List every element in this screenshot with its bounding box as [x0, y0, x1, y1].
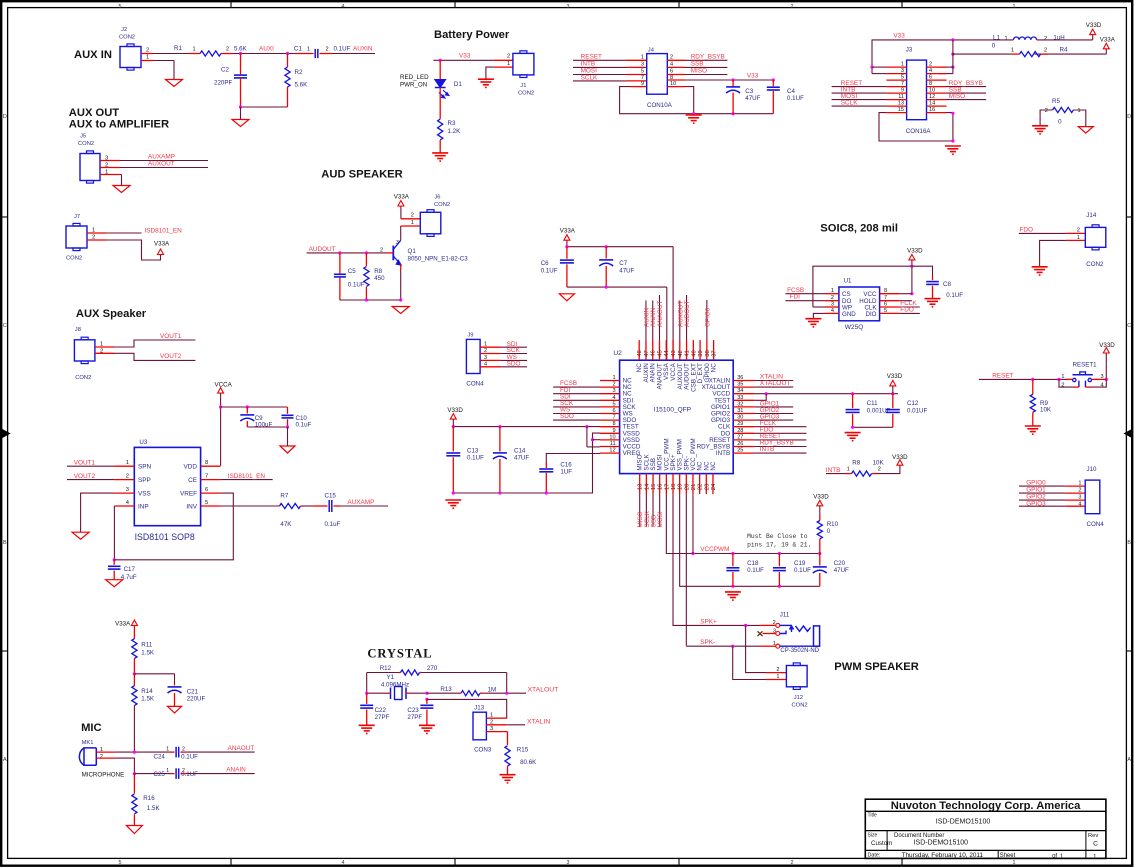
svg-text:R3: R3	[448, 120, 456, 127]
svg-text:VOUT1: VOUT1	[160, 333, 182, 340]
svg-text:2: 2	[776, 667, 779, 673]
svg-text:MIC: MIC	[81, 722, 102, 734]
svg-text:42: 42	[678, 350, 684, 356]
net label VOUT2 at U3	[74, 473, 96, 480]
frame column labels bottom	[119, 860, 1016, 866]
junction R11 R14 C21	[133, 672, 136, 675]
net label RESET at RESET1	[992, 372, 1013, 379]
earth ground below R3	[432, 153, 448, 161]
section header MIC	[81, 722, 102, 734]
C1 leads	[295, 53, 332, 55]
wire MK1 pin2 to ANAIN row	[116, 758, 136, 775]
svg-text:2: 2	[1045, 108, 1048, 114]
svg-text:SOIC8, 208 mil: SOIC8, 208 mil	[820, 223, 898, 235]
svg-text:0: 0	[1058, 119, 1062, 126]
section header SOIC8 208 mil	[820, 223, 898, 235]
IC U2 body	[620, 360, 734, 473]
svg-text:CON3: CON3	[474, 747, 492, 754]
svg-text:16: 16	[929, 107, 935, 113]
signal ground right of R5	[1078, 127, 1093, 134]
wires U2 left nets FCSB FDI SDI SCK WS SDO	[553, 387, 600, 420]
svg-text:CON2: CON2	[1086, 261, 1104, 268]
J4 right pin numbers	[670, 55, 676, 87]
U2 bottom pin numbers	[638, 483, 717, 490]
svg-text:SCLK: SCLK	[581, 74, 598, 81]
svg-text:ANAOUT: ANAOUT	[657, 301, 664, 327]
svg-text:R4: R4	[1060, 47, 1068, 54]
net label SPK+	[700, 619, 717, 626]
svg-text:V33: V33	[893, 33, 905, 40]
R3 bottom lead	[439, 140, 441, 153]
connector J14	[1085, 225, 1106, 250]
U2 right pin names	[697, 378, 731, 458]
wires J9 nets	[501, 347, 527, 367]
C22 labels	[375, 707, 390, 721]
svg-text:CON2: CON2	[119, 35, 135, 41]
wire net V33 to C3 C4	[685, 79, 773, 81]
wire U1 top loop	[813, 266, 933, 307]
earth ground below C18	[725, 592, 741, 600]
earth ground below R15	[500, 775, 516, 783]
R15 bottom lead	[507, 766, 509, 775]
svg-text:47K: 47K	[280, 521, 292, 528]
svg-text:AUDOUT: AUDOUT	[684, 300, 691, 327]
svg-text:AUDOUT: AUDOUT	[309, 246, 336, 253]
wire Y1 to R13	[427, 692, 458, 694]
svg-text:C25: C25	[154, 771, 166, 778]
C2 leads	[240, 54, 242, 108]
wire V33A rail top	[565, 240, 673, 248]
net label VOUT1 at U3	[74, 459, 96, 466]
svg-text:12: 12	[929, 94, 935, 100]
svg-text:CON4: CON4	[466, 381, 484, 388]
svg-text:Y1: Y1	[387, 674, 395, 681]
wire net VOUT2 to U3	[67, 479, 114, 481]
svg-text:AUX IN: AUX IN	[74, 49, 112, 61]
power symbol V33A at MIC	[115, 620, 137, 628]
net label AUXIN	[353, 46, 373, 53]
svg-text:0.1UF: 0.1UF	[747, 567, 764, 574]
R16 bottom lead	[133, 814, 135, 825]
svg-text:J13: J13	[474, 705, 485, 712]
net label V33	[459, 53, 471, 60]
power symbol V33D at R8	[892, 454, 908, 465]
svg-text:5.6K: 5.6K	[295, 82, 309, 89]
svg-text:4: 4	[1078, 502, 1081, 508]
net label FDO at J14	[1020, 226, 1034, 233]
wire MK1 pin1 row ANAOUT	[116, 751, 170, 754]
U2 left pin numbers	[609, 375, 615, 454]
net label ANAOUT	[228, 745, 255, 752]
wire VCCA to U3 VDD and C9 C10	[219, 393, 288, 466]
Y1 leads	[367, 692, 427, 694]
transistor Q1	[380, 240, 401, 270]
svg-text:C21: C21	[187, 689, 199, 696]
svg-text:0.1uF: 0.1uF	[325, 521, 341, 528]
U3 designator	[139, 439, 147, 446]
frame row labels right	[1127, 114, 1131, 763]
svg-text:XTALOUT: XTALOUT	[760, 380, 791, 387]
svg-text:80.6K: 80.6K	[520, 759, 537, 766]
wires J3 right nets RDY_BSYB SSB MISO	[947, 87, 987, 100]
wire J2 pin1 to ground	[153, 61, 174, 80]
junction C3 C4 top	[732, 78, 775, 81]
crystal Y1	[381, 674, 409, 700]
net labels RDY_BSYB SSB MISO at J4	[691, 54, 725, 75]
svg-text:46: 46	[651, 350, 657, 356]
svg-text:17: 17	[664, 484, 670, 490]
junction C23 top	[425, 692, 428, 701]
svg-text:15: 15	[898, 107, 904, 113]
connector J4 body	[647, 54, 668, 95]
wire J4 pin9 pin10 ground loop	[620, 87, 774, 114]
svg-text:1uH: 1uH	[1053, 35, 1064, 42]
wire U2 VCCD pin34 to V33D and C11 C12	[754, 392, 898, 395]
J3 right pin stubs	[927, 67, 947, 113]
svg-text:A: A	[1127, 757, 1131, 763]
svg-text:V33D: V33D	[887, 373, 903, 380]
C24 leads	[170, 751, 187, 753]
svg-text:3: 3	[396, 240, 399, 246]
net label FDO at U1	[900, 306, 914, 313]
svg-text:R12: R12	[380, 665, 392, 672]
svg-text:C16: C16	[560, 462, 572, 469]
J5 pin numbers	[105, 156, 108, 176]
svg-text:INV: INV	[186, 503, 197, 510]
power symbol V33D top right	[1086, 22, 1102, 35]
frame row ticks left	[2, 217, 7, 651]
C1 value 0.1UF	[334, 46, 351, 53]
svg-text:C: C	[1093, 840, 1098, 847]
earth ground at J4	[686, 115, 702, 123]
svg-text:R1: R1	[174, 45, 182, 52]
wire J7 pin2 to V33A	[107, 240, 161, 260]
svg-text:2: 2	[1044, 36, 1047, 42]
net label AUXAMP	[148, 154, 175, 161]
net labels MISO SCLK SSB MOSI vertical	[637, 510, 664, 527]
wires U2 top nets AUXOUT AUDOUT	[680, 295, 687, 340]
svg-text:CS: CS	[842, 291, 851, 298]
svg-text:R2: R2	[295, 69, 303, 76]
MK1 pin stubs	[96, 752, 115, 758]
svg-text:Rev: Rev	[1088, 833, 1098, 839]
svg-text:AUXAMP: AUXAMP	[148, 154, 175, 161]
earth ground at J3	[945, 146, 961, 154]
svg-text:SDO: SDO	[507, 360, 521, 367]
net labels GPIO0-3 at J10	[1026, 480, 1046, 508]
svg-text:SPK+: SPK+	[700, 619, 717, 626]
svg-text:J7: J7	[74, 214, 80, 220]
wire J2 pin2 to R1	[153, 53, 189, 55]
svg-text:C13: C13	[467, 448, 479, 455]
resistor R5	[1045, 98, 1081, 126]
resistor R7	[280, 493, 301, 529]
svg-text:MISO: MISO	[691, 68, 707, 75]
svg-text:C17: C17	[124, 566, 136, 573]
svg-text:J9: J9	[467, 333, 473, 339]
svg-text:5: 5	[205, 500, 208, 506]
svg-text:VREF: VREF	[180, 490, 197, 497]
svg-text:3: 3	[641, 62, 644, 68]
wires U2 XTALIN XTALOUT	[754, 381, 793, 388]
svg-text:PWR_ON: PWR_ON	[400, 82, 427, 89]
wire ANAIN row	[134, 773, 169, 775]
svg-text:SPN: SPN	[138, 464, 152, 471]
ground below C17	[106, 580, 123, 587]
svg-text:U2: U2	[613, 350, 622, 357]
wire R1 to C1 node AUXI	[233, 53, 295, 55]
capacitor C14 polarized	[493, 427, 507, 493]
wires U2 FCLK FDO RESET RDY_BSYB INTB	[754, 427, 806, 453]
svg-text:INTB: INTB	[826, 467, 841, 474]
svg-text:RESET: RESET	[992, 372, 1013, 379]
IC U3 body	[134, 447, 200, 525]
svg-text:9: 9	[641, 81, 644, 87]
capacitor C24	[154, 747, 199, 761]
wire SPK- to J12 pin1	[733, 646, 766, 679]
svg-text:D: D	[1127, 114, 1131, 120]
svg-text:C: C	[1127, 323, 1131, 329]
svg-text:CON16A: CON16A	[906, 128, 932, 135]
wire VCCA down to U2 pin43	[672, 247, 674, 361]
svg-text:ISD8101 SOP8: ISD8101 SOP8	[135, 532, 195, 542]
earth ground at U1	[805, 319, 821, 327]
svg-text:1UF: 1UF	[560, 469, 572, 476]
svg-text:MOSI: MOSI	[657, 511, 664, 527]
J5 pin stubs	[100, 161, 120, 175]
IC U1 body	[839, 287, 880, 321]
svg-text:4: 4	[342, 4, 345, 10]
ground below Q1	[392, 307, 409, 314]
svg-text:1M: 1M	[488, 687, 497, 694]
svg-text:1: 1	[307, 47, 310, 53]
svg-text:GND: GND	[842, 311, 856, 318]
svg-text:CON2: CON2	[66, 256, 82, 262]
J11 pin1 stub and circle	[760, 641, 780, 648]
svg-text:450: 450	[374, 275, 385, 282]
svg-text:GPIO0: GPIO0	[704, 307, 711, 327]
ground at U3 VSS	[72, 532, 89, 539]
wire SPK- net	[686, 494, 760, 648]
svg-text:ISD-DEMO15100: ISD-DEMO15100	[936, 819, 991, 826]
J11 pin3 stub and circle	[763, 628, 780, 635]
svg-text:2: 2	[670, 55, 673, 61]
svg-text:ISD8101_EN: ISD8101_EN	[145, 228, 183, 235]
U3 left pin numbers	[126, 460, 130, 506]
frame centre arrow left	[2, 430, 9, 438]
svg-text:2: 2	[791, 4, 794, 10]
svg-text:0.1UF: 0.1UF	[334, 46, 351, 53]
net label ISD8101_EN	[145, 228, 183, 235]
svg-text:AUX to AMPLIFIER: AUX to AMPLIFIER	[69, 119, 169, 131]
wire net AUDOUT to Q1 base	[307, 252, 386, 254]
svg-text:0.001UF: 0.001UF	[867, 408, 891, 415]
svg-text:C6: C6	[541, 260, 549, 267]
U2 designator	[613, 350, 622, 357]
earth ground below C22	[359, 725, 375, 733]
svg-text:0.1UF: 0.1UF	[541, 267, 558, 274]
svg-text:VOUT2: VOUT2	[160, 353, 182, 360]
junction V33 R4 column	[951, 38, 954, 68]
svg-text:D1: D1	[454, 81, 462, 88]
net labels FCSB FDI SDI SCK WS SDO	[560, 380, 577, 420]
svg-text:2: 2	[1044, 48, 1047, 54]
C19 labels	[794, 560, 811, 574]
J14 designator	[1086, 212, 1097, 219]
svg-text:J14: J14	[1086, 212, 1097, 219]
svg-text:J6: J6	[434, 195, 440, 201]
power symbol V33A at J6	[394, 194, 410, 207]
net labels RESET INTB MOSI SCLK at J4	[581, 54, 602, 82]
svg-text:13: 13	[898, 100, 904, 106]
connector J5 designator	[78, 134, 94, 148]
wire C25 net ANAIN	[186, 773, 255, 775]
svg-text:1: 1	[1005, 36, 1008, 42]
U1 right pin names	[859, 291, 877, 318]
wire net V33 battery	[433, 59, 493, 61]
svg-text:21: 21	[691, 484, 697, 490]
C3 labels	[745, 88, 760, 102]
svg-text:2: 2	[878, 467, 881, 473]
J9 pin stubs	[480, 347, 501, 367]
wire J7 pin1 net ISD8101_EN	[107, 232, 142, 234]
power symbol V33A above C6	[560, 228, 576, 241]
svg-text:AUXIN: AUXIN	[353, 46, 373, 53]
svg-text:Thursday, February 10, 2011: Thursday, February 10, 2011	[902, 852, 984, 859]
J4 left pin numbers	[641, 55, 644, 87]
svg-text:7: 7	[901, 81, 904, 87]
svg-text:R7: R7	[280, 493, 288, 500]
earth ground below C8	[925, 299, 941, 307]
connector J10 body	[1085, 480, 1100, 514]
J8 CON2 label	[75, 375, 91, 381]
wire U1 VCC to V33D	[900, 293, 912, 295]
svg-text:Battery Power: Battery Power	[434, 29, 510, 41]
J10 pin numbers	[1078, 481, 1081, 508]
J6 pin1 stub	[401, 225, 421, 227]
connector J2 designator	[119, 27, 135, 41]
svg-text:VOUT2: VOUT2	[74, 473, 96, 480]
J10 designator	[1087, 466, 1098, 473]
svg-text:1.5K: 1.5K	[147, 805, 161, 812]
svg-text:5: 5	[119, 860, 122, 866]
svg-text:C1: C1	[294, 46, 302, 53]
wires J10 nets GPIO0-3	[1019, 486, 1066, 506]
svg-text:VCCPWM: VCCPWM	[700, 546, 729, 553]
wire VSS_PWM pin19 to lower rail	[680, 494, 820, 588]
connector J12	[786, 663, 807, 689]
wire VCC_PWM pin21 drop	[692, 494, 694, 553]
microphone MK1 designator	[82, 740, 94, 746]
svg-text:C24: C24	[154, 754, 166, 761]
net label V33 at C3	[747, 73, 759, 80]
R7 leads	[278, 505, 303, 507]
svg-text:RESET: RESET	[581, 54, 602, 61]
svg-text:XTALOUT: XTALOUT	[528, 686, 559, 693]
J12 pin stubs	[766, 673, 786, 680]
svg-text:0.01UF: 0.01UF	[907, 408, 928, 415]
svg-text:45: 45	[657, 350, 663, 356]
net labels GPIO1 GPIO2 GPIO3 at U2	[760, 400, 780, 420]
svg-text:Date:: Date:	[868, 853, 881, 859]
R5 wires to grounds	[1040, 110, 1086, 127]
svg-text:44: 44	[664, 349, 670, 356]
svg-text:20: 20	[684, 484, 690, 490]
J10 CON4 label	[1087, 521, 1105, 528]
svg-text:V33: V33	[459, 53, 471, 60]
svg-text:0.1UF: 0.1UF	[946, 292, 963, 299]
wire U3 VSS to ground	[81, 493, 115, 532]
R9 bottom lead	[1032, 412, 1034, 426]
svg-text:19: 19	[678, 484, 684, 490]
J13 pin stubs	[486, 718, 506, 732]
J13 CON3 label	[474, 747, 492, 754]
svg-text:1: 1	[146, 55, 149, 61]
wire J5 pin3 net AUXAMP	[120, 160, 208, 162]
J11 jack symbol	[780, 625, 820, 646]
svg-text:43: 43	[671, 350, 677, 356]
J8 pin stubs	[95, 347, 114, 353]
R8 10K leads	[845, 473, 878, 475]
R12 leads	[399, 672, 422, 674]
svg-text:AUX Speaker: AUX Speaker	[76, 308, 147, 320]
capacitor C18	[726, 554, 739, 587]
svg-text:U1: U1	[844, 278, 852, 285]
wire V33D to RESET1	[1105, 353, 1107, 379]
J9 CON4 label	[466, 381, 484, 388]
J3 left pin numbers	[898, 61, 904, 113]
net label ISD8101_EN at U3	[228, 473, 266, 480]
wire J1 pin1 to ground	[486, 67, 494, 79]
U1 right pin numbers	[884, 288, 887, 314]
svg-text:4: 4	[342, 860, 345, 866]
svg-text:0: 0	[827, 528, 831, 535]
svg-text:2: 2	[146, 48, 149, 54]
wire U1 HOLD stub	[900, 300, 912, 302]
svg-text:SDO: SDO	[560, 413, 574, 420]
svg-text:AUXAMP: AUXAMP	[347, 499, 374, 506]
svg-text:0.1UF: 0.1UF	[181, 754, 198, 761]
svg-text:J1: J1	[520, 83, 526, 89]
connector J13 body	[473, 712, 486, 740]
section header PWM SPEAKER	[834, 661, 919, 673]
resistor R2	[285, 67, 308, 89]
Q1 base stub	[386, 252, 393, 254]
net label GPIO0 vertical	[704, 307, 711, 327]
svg-text:5: 5	[641, 69, 644, 75]
svg-text:C23: C23	[407, 707, 419, 714]
svg-text:2: 2	[226, 47, 229, 53]
power symbol V33D at C11	[887, 373, 903, 394]
svg-text:V33D: V33D	[447, 407, 463, 414]
capacitor C5	[334, 253, 346, 300]
svg-text:5: 5	[901, 74, 904, 80]
power symbol V33A right	[1100, 37, 1116, 49]
capacitor C20 polarized	[813, 554, 827, 587]
wire V33A to J6 pin2 and Q1 collector	[401, 206, 420, 219]
svg-text:FDO: FDO	[1020, 226, 1034, 233]
svg-text:V33A: V33A	[560, 228, 576, 235]
svg-text:2: 2	[1077, 228, 1080, 234]
svg-text:3: 3	[1078, 495, 1081, 501]
svg-text:GPIO1: GPIO1	[1026, 487, 1046, 494]
wire C15 net AUXAMP	[340, 505, 388, 507]
svg-text:MK1: MK1	[82, 740, 94, 746]
wire U3 VREF loop	[114, 493, 233, 560]
L1 value 1uH	[1053, 35, 1064, 42]
capacitor C11	[846, 394, 860, 428]
wire J13 pin2 net XTALIN	[507, 724, 525, 726]
